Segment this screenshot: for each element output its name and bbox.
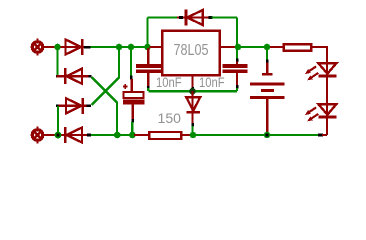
diode D1 — [56, 39, 90, 55]
junction node D — [129, 132, 136, 139]
diode D5 (down pointing, under regulator) — [186, 91, 200, 135]
junction node C — [114, 132, 121, 139]
resistor R1 150 — [134, 132, 193, 139]
LED LED1 — [305, 47, 336, 104]
wire: top rail right of regulator — [238, 46, 268, 48]
wire: black xor segment after D1 — [84, 46, 91, 49]
junction node B on bottom rail — [55, 132, 62, 139]
wire: bottom rail right — [193, 134, 319, 136]
diode D2 — [57, 68, 91, 84]
junction node H (battery top) — [264, 44, 271, 51]
junction node K (battery bottom) — [264, 132, 271, 139]
wire: bottom rail from D4 to resistor R1 — [91, 134, 135, 136]
junction node on top rail x=119 — [116, 44, 123, 51]
wire: ground wire under regulator — [148, 90, 237, 92]
junction node A — [54, 44, 61, 51]
LED LED2 — [305, 104, 336, 135]
diode D7 bypass over regulator — [148, 10, 238, 26]
wire: top rail left — [91, 46, 150, 48]
capacitor C3 electrolytic — [123, 47, 145, 135]
junction node G — [235, 44, 242, 51]
battery B1 — [250, 48, 285, 135]
junction node I (dark xor dot) — [189, 88, 196, 95]
wire: bypass left leg — [146, 18, 148, 48]
junction node E (rail / C1 / bypass) — [144, 44, 151, 51]
svg-text:150: 150 — [158, 110, 182, 126]
connector X2 — [32, 127, 56, 144]
svg-text:10nF: 10nF — [156, 74, 182, 90]
regulator U1 78L05 — [150, 31, 237, 91]
capacitor C1 10nF — [136, 48, 161, 90]
diode D4 — [57, 127, 91, 143]
junction node J (D5 bottom / rail) — [190, 132, 197, 139]
resistor R2 — [270, 44, 328, 50]
junction node F (elco top) — [128, 44, 135, 51]
wire: vertical from D3 left pin down to bottom rail — [57, 106, 59, 135]
connector X1 — [32, 39, 56, 56]
wire: vertical from node A down to D2 — [56, 47, 58, 75]
svg-text:10nF: 10nF — [199, 74, 225, 90]
capacitor C2 10nF — [222, 48, 247, 89]
wire: bypass right leg — [236, 18, 238, 48]
wire: diagonal from D2 anode down-right — [92, 77, 118, 135]
diode D3 — [57, 98, 91, 114]
svg-text:78L05: 78L05 — [174, 42, 209, 59]
wire: vertical x=119 then diagonal down-left to D3 — [92, 47, 120, 105]
